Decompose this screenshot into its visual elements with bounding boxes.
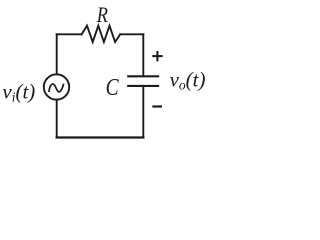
svg-text:vi(t): vi(t) <box>2 80 35 105</box>
svg-text:vo(t): vo(t) <box>170 68 206 93</box>
svg-text:C: C <box>106 75 120 101</box>
source V1 sine symbol <box>49 84 64 92</box>
svg-text:R: R <box>96 2 108 27</box>
wire left upper vertical <box>56 34 58 74</box>
wire right upper vertical <box>142 34 144 76</box>
plus sign polarity <box>152 55 162 57</box>
source V1 circle <box>44 74 69 99</box>
capacitor C top plate <box>127 75 159 77</box>
capacitor C bottom plate <box>127 85 159 87</box>
wire left lower vertical <box>56 100 58 138</box>
wire bottom horizontal <box>57 136 144 138</box>
wire top-right horizontal <box>120 33 143 35</box>
wire top-left horizontal <box>57 33 82 35</box>
resistor R <box>82 26 121 42</box>
minus sign polarity <box>152 105 162 107</box>
wire right lower vertical <box>142 86 144 138</box>
